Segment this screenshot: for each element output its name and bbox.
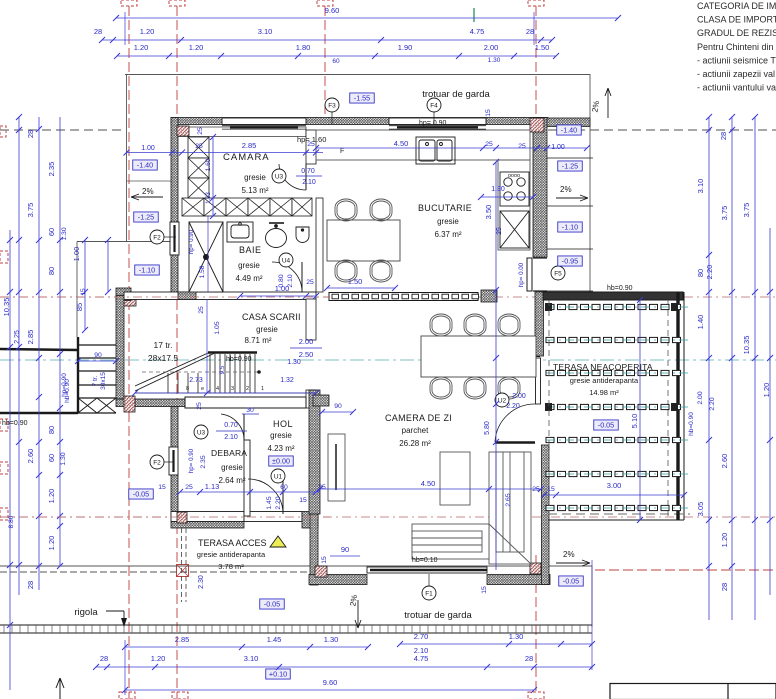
svg-text:1.20: 1.20 <box>189 43 204 52</box>
door U3 camara opening + arc <box>279 164 306 190</box>
axis flag top x=177 <box>169 0 185 6</box>
coffee table <box>440 452 470 505</box>
axis flag top x=129 <box>121 0 137 6</box>
wall stairwell left <box>116 296 124 400</box>
svg-text:CAMARA: CAMARA <box>223 152 270 163</box>
wall hol bottom piece with door U1 jamb <box>244 512 302 522</box>
svg-text:4: 4 <box>216 386 219 392</box>
chairs kitchen bottom <box>335 260 357 282</box>
svg-text:2.10: 2.10 <box>287 274 294 287</box>
svg-text:4.23 m²: 4.23 m² <box>267 444 294 453</box>
svg-text:2.85: 2.85 <box>175 635 190 644</box>
boundary line left upper <box>0 349 78 350</box>
kitchen sink <box>416 137 455 164</box>
north arrow bottom left <box>56 678 64 699</box>
svg-text:- actiunii seismice T: - actiunii seismice T <box>697 55 776 65</box>
axis red dashed vertical x=177 <box>176 6 178 699</box>
pier red top-left <box>177 126 189 136</box>
svg-text:gresie: gresie <box>238 261 260 270</box>
svg-text:15: 15 <box>485 109 492 117</box>
svg-text:BUCUTARIE: BUCUTARIE <box>418 203 472 213</box>
terasa paving strips <box>546 304 681 309</box>
dim bottom row2 <box>96 666 592 668</box>
sidewalk step edge left <box>77 242 171 338</box>
svg-text:3.75: 3.75 <box>26 203 35 218</box>
window F2 baie <box>170 222 179 255</box>
marker F2 baie <box>150 230 164 244</box>
svg-text:- actiunii vantului va: - actiunii vantului va <box>697 83 776 93</box>
axis y297 overdraw <box>0 296 330 298</box>
svg-text:15: 15 <box>321 556 328 564</box>
wall right middle above U2 <box>535 292 544 356</box>
level -0.05 terasa acces <box>129 489 154 499</box>
terasa neacoperita top wall <box>543 292 683 300</box>
baie wc <box>266 223 287 248</box>
svg-text:hp= 0.00: hp= 0.00 <box>518 262 525 287</box>
svg-text:28: 28 <box>526 27 534 36</box>
dim 1.00 row left top <box>240 295 316 297</box>
svg-text:TERASA ACCES: TERASA ACCES <box>198 538 267 548</box>
pier red top-right <box>530 118 544 132</box>
svg-text:1.30: 1.30 <box>324 635 339 644</box>
door U3 debara leaf+arc <box>221 414 244 440</box>
svg-text:hb=0.10: hb=0.10 <box>412 557 438 564</box>
dim chain right x=755 <box>754 117 756 620</box>
svg-text:3.50: 3.50 <box>484 205 493 220</box>
dim living interior 4.50 <box>320 488 541 490</box>
pier red stairwell bottom <box>124 396 135 412</box>
wall exterior right lower <box>542 445 550 585</box>
svg-text:CATEGORIA DE IMP: CATEGORIA DE IMP <box>697 1 776 11</box>
svg-text:F2: F2 <box>153 235 161 242</box>
marker U3 camara <box>272 169 286 183</box>
pier hatch casa scarii top <box>178 292 196 300</box>
svg-text:25: 25 <box>306 279 314 286</box>
kitchen fridge <box>500 211 529 248</box>
axis y517 overdraw <box>0 516 330 518</box>
dim chain left x=19 <box>18 117 20 595</box>
svg-text:28: 28 <box>100 654 108 663</box>
svg-text:3.75: 3.75 <box>720 206 729 221</box>
wall strip right of corner <box>547 118 590 127</box>
svg-text:25: 25 <box>485 141 493 148</box>
svg-text:TERASA NEACOPERITA: TERASA NEACOPERITA <box>553 362 653 372</box>
svg-text:-1.55: -1.55 <box>354 94 370 103</box>
dim vertical 5.10 terasa <box>639 300 641 520</box>
wall debara bottom band <box>171 512 244 522</box>
svg-text:7 tr.: 7 tr. <box>92 375 99 386</box>
svg-text:25: 25 <box>496 227 503 235</box>
level -0.05 south <box>559 576 584 586</box>
svg-text:1.45: 1.45 <box>266 496 273 509</box>
svg-text:1: 1 <box>261 386 264 392</box>
door U2 fixed panel <box>536 358 541 404</box>
dim row 2 top <box>102 39 552 41</box>
section gray dash y=130 <box>0 129 125 131</box>
svg-text:3.10: 3.10 <box>696 179 705 194</box>
dim stairs bottom line <box>135 392 316 394</box>
svg-text:U3: U3 <box>275 174 284 181</box>
svg-text:85: 85 <box>75 303 84 311</box>
svg-text:F: F <box>340 148 344 155</box>
door U2 living east leaf+arc <box>495 404 535 442</box>
axis flag bottom x=536 <box>528 692 544 699</box>
svg-text:Pentru Chinteni din: Pentru Chinteni din <box>697 42 774 52</box>
exterior landing steps east <box>547 158 593 291</box>
axis flag left y=130 <box>0 126 6 137</box>
svg-text:25: 25 <box>198 306 205 314</box>
svg-text:-0.05: -0.05 <box>563 577 579 586</box>
svg-text:1.30: 1.30 <box>491 186 505 193</box>
dim terasa 3.00 row <box>544 494 684 496</box>
sidewalk trotuar top edge <box>125 75 590 293</box>
svg-text:15: 15 <box>299 497 307 504</box>
svg-text:0.70: 0.70 <box>301 168 315 175</box>
svg-text:28x17.5: 28x17.5 <box>148 353 179 363</box>
tv cabinet <box>328 434 345 501</box>
svg-text:gresie: gresie <box>437 217 459 226</box>
stairs walk line <box>142 371 260 373</box>
svg-text:25: 25 <box>318 484 326 491</box>
svg-text:1.30: 1.30 <box>509 632 524 641</box>
section teal dash-dot y=358 <box>0 359 776 361</box>
dim row 9.60 top <box>116 17 618 19</box>
svg-text:-1.25: -1.25 <box>138 213 154 222</box>
svg-text:F2: F2 <box>153 460 161 467</box>
svg-text:1.30: 1.30 <box>287 359 301 366</box>
level -0.95 right <box>558 256 583 266</box>
svg-text:2.10: 2.10 <box>302 179 316 186</box>
svg-text:1.30: 1.30 <box>61 227 68 240</box>
dim bottom row1 right <box>400 643 592 645</box>
stairs tread numbers <box>186 386 264 392</box>
svg-text:gresie: gresie <box>256 325 278 334</box>
svg-text:3.05: 3.05 <box>696 502 705 517</box>
dim chain left x=85 <box>84 240 86 330</box>
svg-text:F4: F4 <box>430 103 438 110</box>
svg-text:60: 60 <box>280 484 288 491</box>
svg-text:90: 90 <box>341 545 349 554</box>
svg-text:1.00: 1.00 <box>72 247 81 262</box>
level -1.10 left <box>135 265 160 275</box>
svg-text:25: 25 <box>196 402 203 410</box>
dim 90 bottom near F1 <box>330 555 360 557</box>
sofa L-shape <box>412 452 531 564</box>
svg-text:8: 8 <box>186 386 189 392</box>
svg-text:BAIE: BAIE <box>239 245 262 255</box>
svg-text:F5: F5 <box>554 271 562 278</box>
wall baie right <box>316 198 323 292</box>
svg-text:4.49 m²: 4.49 m² <box>235 274 262 283</box>
svg-text:60: 60 <box>47 228 56 236</box>
camara shelf column xboxes <box>188 137 209 158</box>
dim bottom row1 left <box>125 646 368 648</box>
svg-text:30x15: 30x15 <box>100 372 107 390</box>
dim camara interior <box>127 152 324 154</box>
axis flag top x=536 <box>528 0 544 6</box>
svg-text:2.00: 2.00 <box>484 43 499 52</box>
svg-text:2.30: 2.30 <box>198 575 205 589</box>
stove <box>500 172 529 206</box>
kitchen counter right <box>498 160 530 250</box>
axis red dashed horizontal y=297 <box>0 296 776 298</box>
axis red dashed vertical x=536 <box>535 6 537 117</box>
svg-text:2.60: 2.60 <box>720 454 729 469</box>
svg-text:oooo: oooo <box>508 173 520 179</box>
axis flag left y=257 <box>0 251 8 263</box>
svg-text:4.50: 4.50 <box>394 139 409 148</box>
kitchen counter top <box>316 130 530 160</box>
svg-text:30: 30 <box>246 407 254 414</box>
svg-text:3.10: 3.10 <box>258 27 273 36</box>
svg-text:-0.05: -0.05 <box>598 421 614 430</box>
stairs lower treads <box>168 373 198 393</box>
svg-text:2.70: 2.70 <box>414 632 429 641</box>
svg-text:2.64 m²: 2.64 m² <box>218 476 245 485</box>
pier hol-living <box>313 395 329 406</box>
svg-text:3.10: 3.10 <box>244 654 259 663</box>
dim chain left x=10 <box>9 230 11 690</box>
door U4 baie leaf+arc <box>272 262 302 292</box>
svg-text:1.20: 1.20 <box>134 43 149 52</box>
dim vertical 1.00/25 near camara left <box>212 137 214 216</box>
svg-text:10.35: 10.35 <box>2 298 11 317</box>
terasa posts <box>545 303 552 311</box>
svg-text:+0.10: +0.10 <box>269 670 287 679</box>
dim chain left x=60 <box>59 117 61 566</box>
pier red debara bottom corner <box>177 512 187 523</box>
svg-text:DEBARA: DEBARA <box>211 448 247 458</box>
svg-text:CLASA DE IMPORTAN: CLASA DE IMPORTAN <box>697 15 776 25</box>
wall living left <box>310 514 318 585</box>
dim bottom row3 9.60 <box>125 689 534 691</box>
svg-text:4.50: 4.50 <box>421 479 436 488</box>
door U1 hol south leaf+arc <box>248 479 283 514</box>
stairs break lines <box>135 353 215 391</box>
text block top right <box>697 1 776 93</box>
wall debara left upper <box>171 407 178 448</box>
svg-text:15: 15 <box>158 484 166 491</box>
svg-text:-0.05: -0.05 <box>133 490 149 499</box>
wall camara/baie cabinet row <box>182 198 204 216</box>
svg-text:90: 90 <box>94 352 102 359</box>
wall left below window F2 <box>171 255 178 292</box>
svg-text:1.50: 1.50 <box>348 277 363 286</box>
svg-text:28: 28 <box>26 581 35 589</box>
pier red bottom-left <box>315 566 327 577</box>
level -1.40 left <box>133 160 158 170</box>
svg-text:15: 15 <box>80 288 87 296</box>
dim hol interior <box>180 491 320 493</box>
svg-text:90: 90 <box>334 403 342 410</box>
svg-text:2.50: 2.50 <box>299 350 314 359</box>
level -0.05 sidewalk bottom <box>260 599 285 609</box>
svg-text:4.75: 4.75 <box>470 27 485 36</box>
marker F3 <box>325 98 339 112</box>
window F4 bucatarie <box>389 118 486 129</box>
wall camara right / kitchen left <box>306 130 316 164</box>
rigola channel band <box>0 624 592 626</box>
level -1.10 right <box>558 222 583 232</box>
camara ledge under top wall <box>178 127 306 137</box>
svg-text:5.80: 5.80 <box>484 421 491 435</box>
baie bidet <box>296 227 309 243</box>
svg-text:1.30: 1.30 <box>488 57 501 64</box>
wall exterior bottom right of window F1 <box>487 575 550 585</box>
svg-text:2.65: 2.65 <box>505 493 512 506</box>
svg-text:28: 28 <box>94 27 102 36</box>
svg-text:1.03: 1.03 <box>206 192 212 204</box>
low wall balusters <box>329 293 478 301</box>
svg-text:1.05: 1.05 <box>214 321 221 334</box>
svg-text:25: 25 <box>197 127 204 135</box>
pier red stairwell top corner <box>124 294 136 306</box>
svg-text:9.60: 9.60 <box>323 678 338 687</box>
svg-text:U1: U1 <box>274 474 283 481</box>
svg-text:1.20: 1.20 <box>720 533 729 548</box>
svg-text:2%: 2% <box>142 187 154 196</box>
svg-text:25: 25 <box>518 143 526 150</box>
svg-text:gresie: gresie <box>244 173 266 182</box>
marker U2 <box>495 393 509 407</box>
svg-text:2.85: 2.85 <box>26 330 35 345</box>
svg-text:5.13 m²: 5.13 m² <box>241 186 268 195</box>
marker U3 debara <box>194 425 208 439</box>
level -1.40 right <box>557 125 582 135</box>
axis flag bottom x=127 <box>119 692 135 699</box>
svg-text:2.25: 2.25 <box>14 330 21 344</box>
wall exterior bottom left of window F1 <box>309 575 367 585</box>
svg-text:±0.00: ±0.00 <box>272 457 290 466</box>
svg-text:3.00: 3.00 <box>607 481 622 490</box>
svg-text:25: 25 <box>185 484 193 491</box>
svg-text:gresie antiderapanta: gresie antiderapanta <box>570 376 639 385</box>
marker F4 <box>427 98 441 112</box>
svg-text:15: 15 <box>481 586 488 594</box>
svg-text:1.80: 1.80 <box>296 43 311 52</box>
svg-text:15: 15 <box>547 486 555 493</box>
svg-text:0.80: 0.80 <box>278 274 285 287</box>
svg-text:CASA SCARII: CASA SCARII <box>242 312 301 322</box>
svg-text:-0.05: -0.05 <box>264 600 280 609</box>
window F2 debara <box>169 447 178 475</box>
svg-text:3: 3 <box>231 386 234 392</box>
svg-text:2.85: 2.85 <box>242 141 257 150</box>
svg-text:-1.25: -1.25 <box>562 162 578 171</box>
dim kitchen interior <box>316 147 587 149</box>
svg-text:U4: U4 <box>282 258 291 265</box>
svg-text:F3: F3 <box>328 103 336 110</box>
dim chain left x=108 <box>107 240 109 292</box>
chairs kitchen top <box>335 199 357 221</box>
svg-text:1.20: 1.20 <box>47 536 56 551</box>
svg-text:2.73: 2.73 <box>189 377 203 384</box>
axis flag left y=468 <box>0 462 8 474</box>
svg-text:2.20: 2.20 <box>709 397 716 410</box>
wall stairwell bottom band <box>116 399 185 407</box>
svg-text:1.20: 1.20 <box>47 489 56 504</box>
svg-text:2.20: 2.20 <box>275 496 282 509</box>
svg-text:60: 60 <box>47 454 56 462</box>
marker F1 <box>422 586 436 600</box>
svg-text:hb=0.90: hb=0.90 <box>2 420 28 427</box>
svg-text:U3: U3 <box>197 430 206 437</box>
door F5 kitchen east leaf <box>527 258 532 291</box>
svg-text:9.60: 9.60 <box>325 6 340 15</box>
svg-text:1.30: 1.30 <box>60 452 67 465</box>
svg-text:28: 28 <box>525 654 533 663</box>
dim row 3 top <box>117 55 556 57</box>
svg-text:hp= 0.90: hp= 0.90 <box>188 448 195 473</box>
marker F5 <box>551 266 565 280</box>
terasa acces dashed edge <box>182 528 187 602</box>
stairs landing edge <box>208 351 257 354</box>
svg-text:2%: 2% <box>563 550 575 559</box>
dim chain right x=709 <box>708 117 710 620</box>
title block bottom right <box>610 684 776 699</box>
wall step band stairwell top corner <box>116 288 131 301</box>
svg-text:- actiunii zapezii val: - actiunii zapezii val <box>697 69 775 79</box>
svg-text:hb=0.90: hb=0.90 <box>607 285 633 292</box>
svg-text:2.00: 2.00 <box>697 391 704 404</box>
terasa bottom edge <box>548 519 684 521</box>
svg-text:hp= 0.90: hp= 0.90 <box>188 229 195 254</box>
svg-text:17 tr.: 17 tr. <box>154 340 173 350</box>
svg-text:1.60: 1.60 <box>205 158 212 171</box>
axis red dashed horizontal y=570 right <box>595 569 776 571</box>
svg-text:1.45: 1.45 <box>267 635 282 644</box>
svg-text:3.75: 3.75 <box>742 203 751 218</box>
pier red bottom-right <box>530 563 541 574</box>
svg-text:hb=0.90: hb=0.90 <box>688 412 695 436</box>
svg-text:6.37 m²: 6.37 m² <box>434 230 461 239</box>
svg-text:-1.10: -1.10 <box>139 266 155 275</box>
svg-text:hp= 1.60: hp= 1.60 <box>297 135 326 144</box>
svg-text:2.10: 2.10 <box>224 434 238 441</box>
level -1.55 <box>350 93 375 103</box>
svg-text:2.35: 2.35 <box>47 162 56 177</box>
section teal tick top <box>473 8 475 22</box>
svg-text:1.40: 1.40 <box>696 315 705 330</box>
svg-text:hp= 0.90: hp= 0.90 <box>419 120 447 127</box>
wall exterior top <box>171 118 548 125</box>
svg-text:-1.40: -1.40 <box>137 161 153 170</box>
wall casa scarii right <box>306 299 316 340</box>
svg-text:gresie: gresie <box>270 431 292 440</box>
terasa neacoperita right wall <box>678 292 684 520</box>
wall exterior left upper <box>171 118 178 223</box>
svg-text:26.28 m²: 26.28 m² <box>399 439 431 448</box>
wall stairwell bottom to hol <box>185 397 306 408</box>
terasa left dashed boundary <box>548 300 550 520</box>
svg-text:14.98 m²: 14.98 m² <box>589 388 619 397</box>
axis flag bottom x=180 <box>172 692 188 699</box>
svg-text:2: 2 <box>246 386 249 392</box>
dim chain right x=770 <box>769 228 771 595</box>
svg-text:-0.95: -0.95 <box>562 257 578 266</box>
baie washbasin <box>227 222 253 242</box>
svg-text:CAMERA DE ZI: CAMERA DE ZI <box>385 413 452 423</box>
svg-text:1.13: 1.13 <box>205 482 220 491</box>
svg-text:F1: F1 <box>425 591 433 598</box>
sidewalk bottom region <box>0 566 592 627</box>
svg-text:4.75: 4.75 <box>414 654 429 663</box>
svg-text:28: 28 <box>720 583 729 591</box>
svg-text:2.20: 2.20 <box>705 265 714 280</box>
svg-text:-1.10: -1.10 <box>562 223 578 232</box>
dim vertical kitchen 3.50 <box>495 162 497 570</box>
svg-text:1.32: 1.32 <box>280 377 294 384</box>
